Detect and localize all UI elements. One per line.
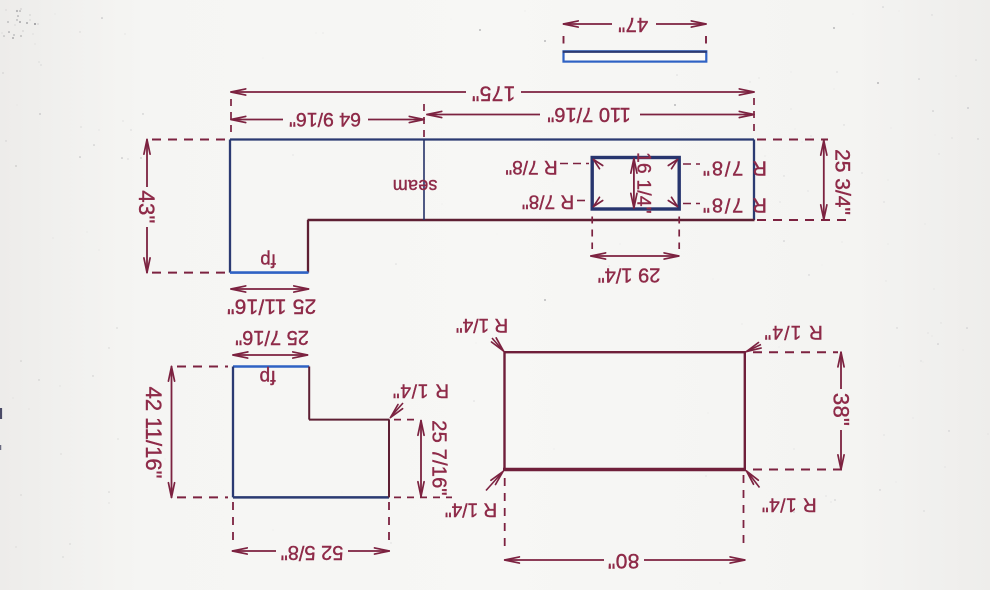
svg-text:25 3/4": 25 3/4" xyxy=(831,149,854,215)
svg-text:29 1/4": 29 1/4" xyxy=(598,264,661,286)
svg-text:R 1/4": R 1/4" xyxy=(456,314,508,335)
svg-text:47": 47" xyxy=(618,13,648,35)
svg-text:80": 80" xyxy=(608,549,640,572)
svg-text:fp: fp xyxy=(260,251,276,272)
svg-text:R 1/4": R 1/4" xyxy=(445,499,497,520)
svg-text:seam: seam xyxy=(393,176,438,196)
svg-text:25 7/16": 25 7/16" xyxy=(235,326,309,348)
svg-text:16 1/4": 16 1/4" xyxy=(633,152,654,214)
svg-text:110 7/16": 110 7/16" xyxy=(547,103,630,125)
svg-text:175": 175" xyxy=(472,82,516,105)
svg-text:R 7/8": R 7/8" xyxy=(522,191,574,212)
svg-text:R 7/8": R 7/8" xyxy=(701,157,767,179)
svg-text:R 7/8": R 7/8" xyxy=(701,194,767,216)
svg-text:25 11/16": 25 11/16" xyxy=(227,295,316,318)
svg-text:25 7/16": 25 7/16" xyxy=(428,420,450,495)
svg-text:42 11/16": 42 11/16" xyxy=(141,387,166,479)
svg-text:64 9/16": 64 9/16" xyxy=(289,108,361,130)
svg-text:R 1/4": R 1/4" xyxy=(763,321,822,342)
svg-text:R 1/4": R 1/4" xyxy=(761,494,816,515)
svg-text:R 1/4": R 1/4" xyxy=(392,380,449,401)
svg-text:38": 38" xyxy=(829,393,854,426)
svg-text:R 7/8": R 7/8" xyxy=(505,156,557,177)
svg-text:52 5/8": 52 5/8" xyxy=(281,541,344,563)
svg-text:fp: fp xyxy=(259,366,275,387)
svg-text:43": 43" xyxy=(134,190,159,223)
